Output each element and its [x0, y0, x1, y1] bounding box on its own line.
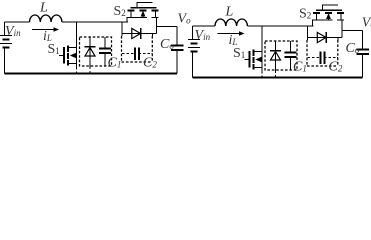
wire cell2 right vertical (left): [152, 34, 154, 37]
battery Vin (left): [0, 22, 12, 74]
wire cell2 left vertical (left): [121, 22, 123, 36]
svg-text:L: L: [39, 1, 48, 16]
inductor L (left): [30, 15, 62, 22]
capacitor C1 (left): [99, 37, 111, 67]
wire top rail (left): [5, 21, 129, 23]
capacitor C1 (right): [285, 41, 297, 71]
svg-text:C1: C1: [108, 56, 122, 71]
transistor S1 (right): [245, 50, 263, 70]
capacitor C2 (left): [122, 48, 153, 61]
diode D1 (right): [270, 41, 281, 78]
wire cell2 left vertical (right): [307, 26, 309, 40]
arrow iL (right): [218, 31, 245, 35]
svg-text:S2: S2: [299, 7, 311, 22]
diode D1 (left): [85, 37, 96, 74]
dashed box cell 2 (right): [307, 40, 338, 66]
wire S1 source dashed drop (left): [76, 67, 78, 74]
svg-text:S1: S1: [48, 42, 60, 57]
wire bottom rail (left): [5, 73, 178, 75]
svg-text:Vo: Vo: [362, 16, 371, 31]
capacitor Co (left): [171, 27, 184, 74]
dashed box cell 1 (right): [265, 41, 297, 70]
dashed box cell 2 (left): [122, 36, 153, 62]
wire top rail (right): [193, 25, 314, 27]
svg-text:Vin: Vin: [5, 24, 21, 39]
transistor S2 (left): [127, 3, 159, 23]
wire output node (left): [157, 18, 178, 34]
diode D2 (right): [308, 32, 343, 43]
svg-text:Vin: Vin: [195, 28, 211, 43]
battery Vin (right): [188, 26, 200, 78]
svg-text:S1: S1: [233, 46, 245, 61]
capacitor C2 (right): [308, 52, 339, 65]
inductor L (right): [215, 19, 247, 26]
arrow iL (left): [32, 27, 59, 31]
capacitor Co (right): [356, 31, 369, 78]
diode D2 (left): [122, 28, 157, 39]
wire output node (right): [342, 20, 363, 38]
svg-text:C2: C2: [143, 56, 157, 71]
transistor S1 (left): [59, 46, 77, 66]
svg-text:Co: Co: [160, 37, 174, 52]
wire bottom rail (right): [193, 77, 363, 79]
svg-text:Vo: Vo: [178, 12, 192, 27]
svg-text:S2: S2: [114, 4, 126, 19]
wire cell2 right vertical (right): [337, 38, 339, 41]
wire node A vertical (right): [261, 26, 263, 71]
svg-text:Co: Co: [346, 41, 360, 56]
svg-text:L: L: [225, 5, 234, 20]
transistor S2 (right): [312, 5, 344, 26]
svg-text:C1: C1: [293, 60, 307, 75]
dashed box cell 1 (left): [80, 37, 112, 66]
wire S1 source dashed drop (right): [261, 71, 263, 78]
wire node A vertical (left): [76, 22, 78, 67]
svg-text:C2: C2: [329, 60, 343, 75]
